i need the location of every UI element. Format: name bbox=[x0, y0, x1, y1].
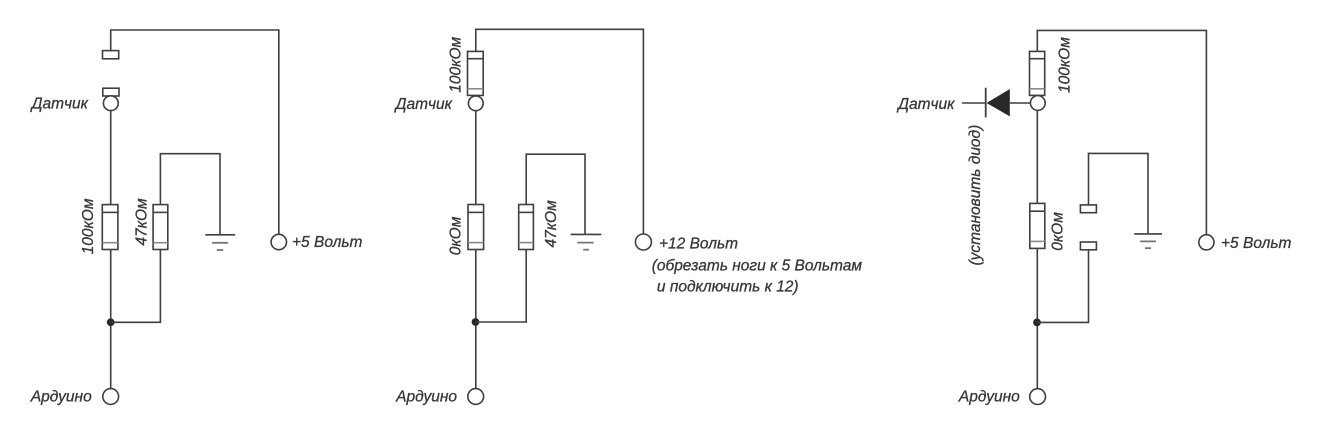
wire: junction branch to resistor R2 bbox=[111, 250, 161, 323]
wire: R7 to junction to Arduino (circuit 3) bbox=[1036, 248, 1038, 388]
node junction dot (circuit 3) bbox=[1033, 319, 1041, 327]
connector X2 socket half (bottom, circuit 3) bbox=[1080, 242, 1096, 250]
svg-text:Ардуино: Ардуино bbox=[30, 389, 92, 406]
connector X1 plug half (top) bbox=[103, 51, 119, 59]
wire: R4 to junction to Arduino (circuit 2) bbox=[475, 250, 477, 389]
svg-text:Ардуино: Ардуино bbox=[395, 389, 457, 406]
svg-text:+5 Вольт: +5 Вольт bbox=[1221, 235, 1291, 252]
svg-text:+12 Вольт: +12 Вольт bbox=[659, 235, 738, 252]
wire: sensor node down to resistor R1 bbox=[110, 110, 112, 204]
node +12 Вольт terminal circle (circuit 2) bbox=[635, 234, 651, 250]
svg-text:100кОм: 100кОм bbox=[80, 198, 97, 254]
svg-text:100кОм: 100кОм bbox=[1056, 37, 1073, 93]
wire: circuit1 top rail from connector to +5V drop bbox=[111, 30, 279, 234]
svg-text:(обрезать ноги к 5 Вольтам: (обрезать ноги к 5 Вольтам bbox=[652, 258, 863, 275]
ground (circuit 3) bbox=[1134, 234, 1162, 248]
node Датчик terminal circle (circuit 3) bbox=[1030, 96, 1045, 111]
wire: circuit3 top rail from R6 to +5V drop bbox=[1037, 30, 1206, 234]
node +5 Вольт terminal circle (circuit 1) bbox=[271, 234, 286, 249]
wire: junction branch to resistor R5 (circuit 2) bbox=[476, 250, 527, 323]
svg-text:Датчик: Датчик bbox=[30, 96, 89, 113]
svg-text:(установить диод): (установить диод) bbox=[967, 125, 984, 266]
node Ардуино terminal circle (circuit 3) bbox=[1030, 389, 1046, 405]
ground (circuit 2) bbox=[571, 234, 602, 249]
svg-text:0кОм: 0кОм bbox=[1050, 212, 1067, 251]
wire: junction branch to open connector (circuit 3) bbox=[1037, 250, 1089, 323]
wire: R2 up and over to ground (circuit 1) bbox=[160, 154, 220, 235]
svg-text:Датчик: Датчик bbox=[896, 96, 955, 113]
node junction dot (circuit 2) bbox=[472, 318, 480, 326]
svg-text:47кОм: 47кОм bbox=[543, 200, 560, 248]
diode D1 (установить диод) bbox=[986, 88, 1010, 118]
resistor R5 47кОм body (circuit 2) bbox=[519, 205, 534, 250]
svg-text:47кОм: 47кОм bbox=[134, 198, 151, 246]
wire: sensor node down to resistor R7 (circuit 3) bbox=[1036, 110, 1038, 203]
ground (circuit 1) bbox=[205, 235, 235, 250]
wire: sensor text to diode anode bbox=[962, 102, 986, 104]
node Ардуино terminal circle (circuit 2) bbox=[468, 389, 484, 405]
node +5 Вольт terminal circle (circuit 3) bbox=[1199, 235, 1214, 250]
resistor R7 0кОм body (circuit 3) bbox=[1030, 203, 1045, 248]
connector X1 socket half (bottom) bbox=[103, 88, 119, 96]
wire: sensor node down to resistor R4 (circuit 2) bbox=[475, 111, 477, 205]
svg-text:0кОм: 0кОм bbox=[447, 216, 464, 255]
resistor R1 100кОм body bbox=[102, 205, 118, 250]
wire: circuit2 top rail from R3 to +12V drop bbox=[476, 29, 644, 234]
svg-text:+5 Вольт: +5 Вольт bbox=[292, 234, 362, 251]
wire: connector up and over to ground (circuit 3) bbox=[1089, 153, 1149, 233]
node Датчик terminal circle (circuit 1) bbox=[103, 96, 118, 111]
connector X2 plug half (top, circuit 3) bbox=[1080, 205, 1096, 213]
wire: R1 to junction to Arduino bbox=[110, 250, 112, 389]
svg-text:и подключить к 12): и подключить к 12) bbox=[657, 278, 799, 295]
resistor R6 100кОм body (circuit 3 top) bbox=[1030, 51, 1045, 95]
svg-text:Датчик: Датчик bbox=[394, 96, 453, 113]
node Ардуино terminal circle (circuit 1) bbox=[103, 389, 119, 405]
svg-text:Ардуино: Ардуино bbox=[958, 389, 1020, 406]
resistor R3 100кОм body (circuit 2 top) bbox=[468, 51, 484, 95]
wire: diode cathode to sensor circle (circuit 3) bbox=[1010, 102, 1031, 104]
node Датчик terminal circle (circuit 2) bbox=[468, 96, 483, 111]
wire: R5 up and over to ground (circuit 2) bbox=[526, 154, 585, 234]
resistor R4 0кОм body bbox=[468, 205, 484, 250]
resistor R2 47кОм body bbox=[153, 205, 168, 250]
svg-text:100кОм: 100кОм bbox=[448, 36, 465, 92]
node junction dot (circuit 1) bbox=[107, 318, 115, 326]
